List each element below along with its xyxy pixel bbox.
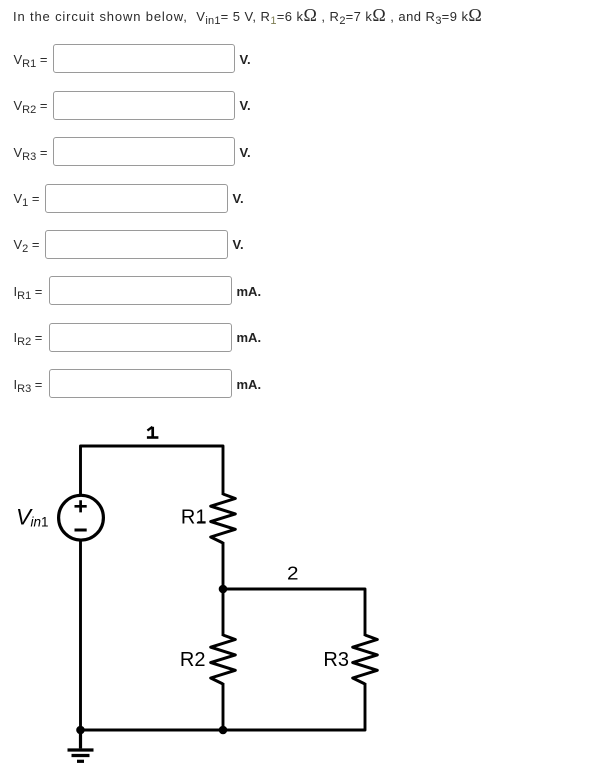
voltage source minus sign xyxy=(75,529,87,532)
voltage source Vin1 circle xyxy=(59,495,104,540)
junction dot node 2 xyxy=(219,585,228,594)
wire R1 bottom lead to node 2 xyxy=(222,542,225,589)
svg-text:Vin1: Vin1 xyxy=(16,505,49,530)
junction dot bottom middle xyxy=(219,726,228,735)
svg-text:R1: R1 xyxy=(181,507,207,529)
resistor R1 zigzag xyxy=(211,494,236,543)
wire Vin1 bottom lead down to ground rail xyxy=(79,540,82,730)
wire node 2 horizontal across to R3 top lead xyxy=(223,589,365,636)
resistor R3 zigzag xyxy=(353,635,378,684)
svg-text:2: 2 xyxy=(287,564,299,584)
wire R2 top lead xyxy=(222,589,225,636)
resistor R2 zigzag xyxy=(211,635,236,684)
wire from Vin1 top up and across node 1 to R1 top xyxy=(81,446,224,496)
wire R3 bottom lead and bottom ground rail xyxy=(81,683,366,730)
svg-text:R2: R2 xyxy=(180,649,206,671)
junction dot bottom left xyxy=(76,726,85,735)
node label 1 xyxy=(147,427,159,438)
voltage source plus sign xyxy=(75,500,87,512)
ground symbol xyxy=(68,730,94,761)
wire R2 bottom lead xyxy=(222,683,225,730)
svg-text:R3: R3 xyxy=(323,649,349,671)
